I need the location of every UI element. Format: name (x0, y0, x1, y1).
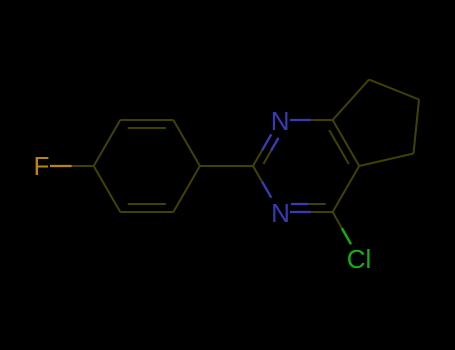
svg-text:N: N (271, 106, 290, 136)
svg-text:Cl: Cl (347, 244, 372, 274)
svg-text:F: F (34, 151, 50, 181)
svg-text:N: N (271, 198, 290, 228)
